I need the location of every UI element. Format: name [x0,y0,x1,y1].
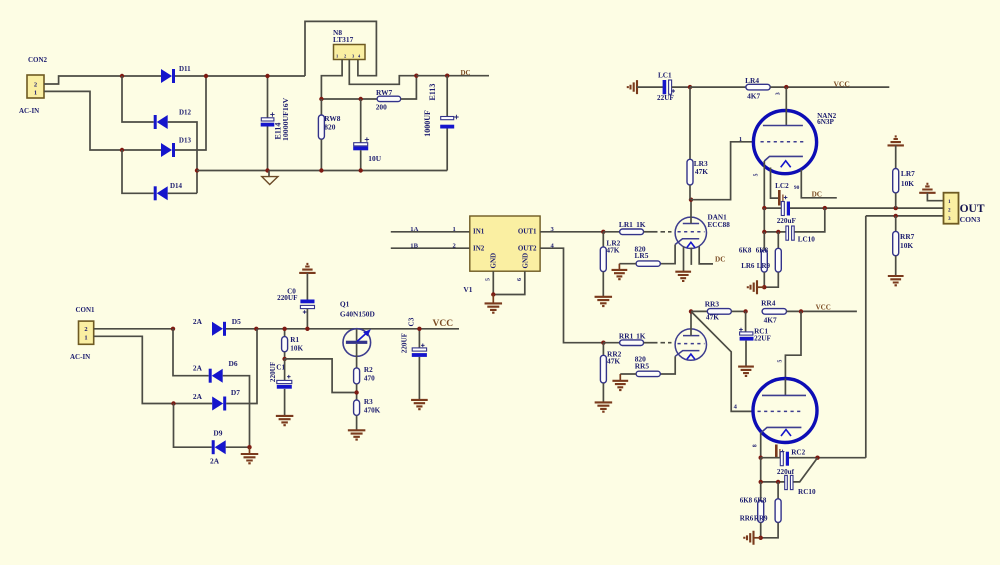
svg-text:RR6: RR6 [740,515,754,523]
ground CON3 pin1 (inverted) [919,184,935,193]
svg-text:5: 5 [754,173,760,176]
wire DC- bottom rail [197,170,447,172]
output tube cathode [761,427,802,433]
wire top AC rail to D11 [122,75,161,77]
connector CON2 [27,75,44,98]
transistor Q1 G40N150D [343,329,371,357]
junction RR2 top [601,341,605,345]
triode2 grid (dashed) [678,343,705,345]
junction output cathode [759,456,763,460]
wire triode2 anode [690,311,692,335]
wire OUT1 pin 3 [540,231,603,233]
junction LR9 top [776,230,780,234]
junction RR7 top [894,214,898,218]
junction LR6 bottom [762,285,766,289]
svg-text:2A: 2A [193,317,203,326]
wire NAN2 heater to LC2 [771,168,780,199]
diode D9 [212,440,215,454]
capacitor C0 [306,273,308,300]
svg-text:1: 1 [84,335,87,342]
ground LR2 [595,297,613,306]
wire DAN1 cathode down [660,245,675,264]
wire CON3 row 2 [866,215,944,217]
junction 10U top [359,97,363,101]
capacitor RC10 [785,475,788,489]
junction C3 top [417,327,421,331]
svg-text:CON1: CON1 [76,306,96,314]
svg-text:C3: C3 [408,317,416,326]
svg-text:LC2: LC2 [775,182,789,190]
wire OUT2 pin 4 to lower channel [540,248,603,343]
svg-text:47K: 47K [606,245,619,254]
svg-text:2: 2 [948,208,951,214]
wire CON2 pin1 to D13 row [44,91,161,150]
wire AC1 down to D6 [173,329,209,376]
svg-text:E113: E113 [428,84,437,101]
resistor R2 [354,368,360,384]
junction DC- lower [247,445,251,449]
svg-text:2: 2 [84,326,87,333]
resistor RR6 [760,482,762,501]
resistor LR2 [602,232,604,247]
NAN2 grid (dashed) [761,141,804,143]
wire input 1A [391,231,470,233]
svg-text:RC2: RC2 [791,449,805,457]
svg-text:220uf: 220uf [777,468,795,476]
resistor LR6 [763,232,765,250]
svg-text:LR5: LR5 [635,251,649,260]
svg-text:RR1: RR1 [619,331,634,340]
wire D12 anode down to D14 row [168,122,197,193]
wire D11 cathode to E114/N8 loop [175,75,305,77]
svg-text:1B: 1B [410,242,418,249]
svg-text:LC1: LC1 [658,71,672,79]
svg-text:10U: 10U [368,154,381,163]
ground RR6 (rotated) [754,537,761,539]
svg-text:LT317: LT317 [333,35,354,44]
svg-text:CON2: CON2 [28,56,48,64]
svg-text:6K8: 6K8 [740,497,753,505]
ground RC1 [738,367,754,376]
wire R1 to divider junction [285,359,357,393]
resistor LR7 [895,145,897,168]
wire RC10 row [760,458,762,482]
capacitor C3 [418,329,420,348]
resistor LR3 [689,87,691,159]
svg-text:D7: D7 [231,388,240,397]
resistor RR5 [636,371,660,376]
wire NAN2 cathode down [763,161,765,208]
triode2 cathode [675,351,699,357]
wire LT317 ADJ pin down-left [321,60,342,100]
svg-text:5: 5 [486,278,492,281]
svg-text:D5: D5 [232,317,241,326]
wire D13 cathode up to DC+ rail [175,76,206,150]
junction LR7 bottom [894,206,898,210]
resistor RR4 [762,309,786,315]
svg-text:2: 2 [34,82,37,89]
wire AC2 down to D9 [174,404,212,448]
capacitor LC2 pins (maroon) [778,190,781,206]
ground R3 [348,430,366,439]
NAN2 plate [785,87,787,125]
wire DAN1 heater left to ground [683,247,685,272]
wire DC output rail [416,75,489,77]
junction RR6 top [759,480,763,484]
wire NAN2 heater right to DC [801,170,837,198]
svg-text:RR7: RR7 [900,232,915,241]
wire D14 anode to DC- column [168,192,197,194]
svg-text:CON3: CON3 [960,215,981,224]
svg-text:C1: C1 [276,364,285,372]
junction 10U bottom [359,168,363,172]
svg-text:1: 1 [948,199,951,205]
wire DAN1 anode to NAN2 grid [691,142,753,200]
junction triode2 anode [689,309,693,313]
diode D13 [161,143,172,157]
svg-text:V1: V1 [463,285,472,294]
svg-text:IN1: IN1 [473,228,485,236]
diode D5 [212,322,223,336]
wire RW7 right riser to DC rail [401,76,417,99]
wire input 1B [391,247,470,249]
svg-text:470K: 470K [364,407,381,415]
wire AC2 down to D14 [122,150,154,193]
capacitor E114 [267,76,269,118]
svg-text:6K8: 6K8 [756,246,769,254]
svg-text:D14: D14 [170,182,183,190]
junction NAN2 plate feed [784,85,788,89]
triode2 heater chevron [687,354,695,359]
svg-text:R3: R3 [364,398,373,406]
wire interchannel vertical [865,216,867,458]
junction E114 top [265,74,269,78]
resistor LR5 [636,261,660,266]
svg-text:DC: DC [812,190,822,198]
svg-text:1000UF: 1000UF [423,110,432,137]
svg-text:VCC: VCC [816,304,831,312]
resistor RR7 [895,216,897,232]
ground RR2 [595,402,613,411]
svg-text:2A: 2A [193,364,203,373]
capacitor LC1 [663,80,667,94]
wire DAN1 heater mid stub [690,248,692,265]
Q1 emitter arrow [357,333,367,342]
junction LR2 top [601,230,605,234]
svg-text:47K: 47K [706,313,719,322]
svg-text:LR6: LR6 [741,262,755,270]
svg-text:1: 1 [453,226,456,233]
svg-text:D6: D6 [229,359,238,368]
ground C1 [276,416,294,425]
svg-text:R2: R2 [364,366,373,374]
ground RR5 [619,374,621,380]
junction AC1 node [120,74,124,78]
wire LC10 to output rail [795,208,825,232]
wire anode diagonal to output grid [691,311,753,411]
tube output triode (lower) [753,379,817,443]
junction LC10 riser [823,206,827,210]
junction RW8 bottom [319,168,323,172]
resistor LR4 [746,84,770,90]
svg-text:D9: D9 [213,428,222,437]
svg-text:IN2: IN2 [473,245,485,253]
junction LR3 top [688,85,692,89]
svg-text:6N3P: 6N3P [817,118,834,126]
resistor RR3 [691,310,707,312]
svg-text:4K7: 4K7 [747,91,760,100]
junction DC rail at RW7 [414,74,418,78]
junction AC2 lower [171,401,175,405]
resistor LR9 [777,232,779,248]
svg-text:220uF: 220uF [777,217,797,225]
ground RR7 [888,276,904,285]
ground above LR7 (inverted) [888,136,904,145]
svg-text:DC: DC [715,256,725,264]
capacitor C1 [284,359,286,381]
resistor RW8 [320,99,322,115]
svg-text:LR9: LR9 [757,262,771,270]
tube DAN1 second triode [675,329,706,360]
tube DAN1 triode [675,217,706,248]
ground LR6 (rotated) [758,286,765,288]
junction E113 top [445,74,449,78]
svg-text:1A: 1A [410,226,418,233]
svg-text:D13: D13 [179,137,192,145]
junction AC1 lower [171,327,175,331]
svg-text:R1: R1 [290,336,299,344]
svg-text:6K8: 6K8 [739,246,752,254]
svg-text:Q1: Q1 [340,300,350,309]
svg-text:LR4: LR4 [745,76,759,85]
connector CON1 [79,321,94,344]
wire ADJ row [321,98,377,100]
junction D5 cathode [254,327,258,331]
svg-text:RR4: RR4 [761,298,776,307]
diode D12 [154,115,157,129]
svg-text:6K8: 6K8 [754,497,767,505]
triode2 plate [683,335,699,337]
svg-text:5: 5 [778,360,784,363]
wire DC+ rail lower [226,328,459,330]
NAN2 heater chevron [781,161,791,168]
svg-text:220UF: 220UF [277,294,298,302]
junction DC+ node [204,74,208,78]
svg-text:8: 8 [753,444,759,447]
junction VCC at output tube [799,309,803,313]
svg-text:10K: 10K [900,241,913,250]
svg-text:RR9: RR9 [754,515,768,523]
svg-text:1: 1 [739,136,742,143]
ground rectifier lower [249,447,251,453]
svg-text:VCC: VCC [433,319,454,329]
wire LT317 VOUT pin to DC rail [349,60,416,85]
svg-text:RR3: RR3 [705,299,720,308]
junction R1 bottom [282,357,286,361]
svg-text:RR5: RR5 [635,361,650,370]
resistor RR9 [777,482,779,499]
wire CON3 pin1 [927,193,943,201]
wire D7 cathode up to DC+ rail [226,329,257,404]
resistor R3 [354,400,360,415]
svg-text:OUT2: OUT2 [518,245,537,253]
diode D6 [209,369,212,383]
DAN1 grid (dashed) [678,231,705,233]
svg-text:1K: 1K [636,220,646,229]
NAN2 cathode [764,156,803,161]
svg-text:AC-IN: AC-IN [19,107,39,115]
svg-text:GND: GND [490,253,498,269]
svg-text:820: 820 [324,123,335,132]
svg-text:RC10: RC10 [798,488,816,496]
wire D9 anode to ground [226,446,250,448]
wire D6 anode down to D9 row [223,376,250,448]
ground C3 [411,400,428,409]
capacitor 220uF output (upper) [781,202,784,216]
DAN1 plate [683,223,699,225]
svg-text:10K: 10K [290,345,303,353]
junction RC10 diagonal [815,456,819,460]
ground LC1 (rotated) [628,80,637,94]
junction AC2 node [120,148,124,152]
svg-text:47K: 47K [695,167,708,176]
regulator N8 LT317 [334,45,366,60]
wire lower output rail [761,457,781,459]
IC V1 body [470,216,540,271]
junction R2/R3 divider [354,390,358,394]
wire RC10 diagonal to output rail [793,458,817,482]
junction LR6 top [762,230,766,234]
wire output tube plate feed [785,311,801,378]
tube NAN2 6N3P [753,111,816,174]
svg-text:OUT1: OUT1 [518,228,537,236]
output tube grid (dashed) [758,410,803,412]
wire upper output rail [764,207,781,209]
svg-text:VCC: VCC [834,79,850,88]
svg-text:G40N150D: G40N150D [340,310,375,319]
svg-text:1K: 1K [636,331,646,340]
svg-text:AC-IN: AC-IN [70,353,90,361]
resistor LR1 [603,231,619,233]
ground LR5 [618,264,620,270]
capacitor RC1 [745,311,747,332]
svg-text:LR1: LR1 [619,220,633,229]
svg-text:200: 200 [376,103,387,112]
junction C0 bottom [305,327,309,331]
svg-text:D11: D11 [179,65,191,73]
junction DC- node [195,168,199,172]
ground power supply (open triangle) [268,171,270,177]
svg-text:D12: D12 [179,109,192,117]
svg-text:220UF: 220UF [401,332,409,353]
svg-text:3: 3 [775,92,781,95]
resistor RR2 [602,343,604,356]
svg-text:220UF: 220UF [269,361,277,382]
svg-text:6: 6 [517,278,523,281]
diode D7 [212,397,223,411]
svg-text:470: 470 [364,375,375,383]
svg-text:LR7: LR7 [901,169,915,178]
wire AC1 down to D12 [122,76,154,122]
wire LC10 row [763,208,765,232]
capacitor 10U [360,99,362,143]
diode D11 [161,69,172,83]
svg-text:DC: DC [461,69,471,77]
junction R1 top [282,327,286,331]
wire ground to LC1 [637,86,663,88]
svg-text:22UF: 22UF [657,94,674,102]
diode D14 [154,186,157,200]
svg-text:2A: 2A [210,457,220,466]
resistor RW7 [377,96,401,101]
capacitor LC10 [786,226,789,240]
wire VCC rail upper [690,86,746,88]
ground V1 [492,295,494,303]
svg-text:LC10: LC10 [798,236,816,244]
wire CON1 pin2 to rail [94,328,173,330]
junction NAN2 cathode/output [762,206,766,210]
resistor R1 [284,329,286,337]
capacitor E113 [446,76,448,117]
DAN1 cathode [675,239,699,245]
svg-text:1: 1 [34,90,37,97]
connector CON3 [944,193,959,224]
DAN1 heater chevron [687,242,695,247]
ground DAN1 heater [675,272,691,281]
junction RR6 bottom [759,536,763,540]
wire output tube cathode down [760,433,762,458]
wire DAN1 heater right to DC [699,247,713,264]
svg-text:ECC88: ECC88 [708,221,731,229]
svg-text:10K: 10K [901,179,914,188]
output tube plate [784,379,786,396]
capacitor RC2 pins (maroon) [775,445,778,459]
wire V1 GND pins [492,271,494,294]
svg-text:GND: GND [522,253,530,269]
junction DAN1 anode [689,198,693,202]
regulator U-loop wire (rectifier to LT317 VIN) [305,21,376,76]
junction RR9 top [776,480,780,484]
output tube heater chevron [781,430,791,437]
svg-text:4K7: 4K7 [764,315,777,324]
wire CON2 pin2 to AC rail [44,76,122,84]
wire triode2 cathode down [660,356,675,374]
wire LC1 to VCC rail [672,86,690,88]
wire CON1 pin1 to D7 row [94,336,213,403]
junction V1 ground [491,292,495,296]
svg-text:RW7: RW7 [376,88,392,97]
svg-text:10000UF16V: 10000UF16V [281,97,290,141]
resistor RR1 [603,342,619,344]
svg-text:3: 3 [948,216,951,222]
ground above C0 (inverted) [299,264,315,273]
junction E114 bottom [265,168,269,172]
wire DAN1 anode [690,200,692,224]
svg-text:OUT: OUT [960,203,985,215]
svg-text:22UF: 22UF [754,335,771,343]
svg-text:90: 90 [794,185,800,191]
capacitor RC2 220uf [780,452,783,466]
svg-text:47K: 47K [607,356,620,365]
svg-text:2A: 2A [193,392,203,401]
junction RC1 top [743,309,747,313]
junction RW8 top [319,97,323,101]
